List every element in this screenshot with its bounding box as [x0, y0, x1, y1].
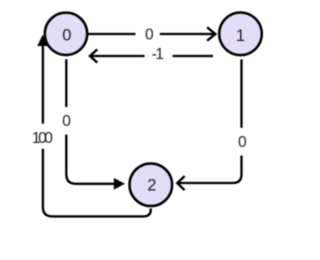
svg-text:1: 1	[236, 27, 245, 45]
svg-text:0: 0	[145, 27, 154, 44]
svg-text:0: 0	[62, 113, 71, 130]
svg-text:2: 2	[147, 177, 156, 195]
svg-text:0: 0	[238, 134, 247, 151]
svg-text:100: 100	[32, 130, 53, 147]
svg-text:1: 1	[155, 46, 164, 63]
svg-text:0: 0	[62, 27, 71, 45]
